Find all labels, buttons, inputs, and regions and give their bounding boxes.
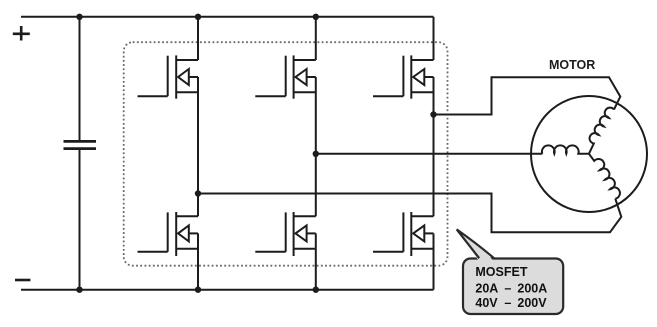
wire: DC bus capacitor branch, upper — [79, 17, 81, 141]
wire: leg C mid run (Q3 source to node C to Q6 drain) — [433, 77, 435, 216]
junction: negative rail / capacitor branch — [76, 287, 82, 293]
svg-text:MOSFET: MOSFET — [475, 265, 527, 279]
label: - terminal — [15, 279, 30, 282]
svg-text:20A–200A: 20A–200A — [475, 281, 547, 295]
wire: phase A output (node A to motor winding, lower route) — [198, 194, 621, 233]
wire: leg A mid run (Q1 source to node A to Q4 drain) — [197, 77, 199, 216]
wire: leg C lower run (Q6 body/source to negative rail) — [433, 233, 435, 289]
motor M1: phase A winding (lower right, wye) — [589, 154, 620, 199]
junction: positive rail / leg B — [313, 14, 319, 20]
junction: positive rail / capacitor branch — [76, 14, 82, 20]
motor M1: stator circle — [531, 96, 647, 212]
wire: leg A drain link (positive rail to Q1) — [197, 17, 199, 60]
wire: leg A lower run (Q4 body/source to negative rail) — [197, 233, 199, 289]
wire: phase B output (node B to motor winding, middle route) — [316, 153, 543, 155]
transistor Q5 (low-side phase B, N-channel MOSFET) — [255, 212, 315, 256]
wire: phase C output (node C to motor winding, upper route) — [434, 77, 621, 114]
node B: phase B half-bridge midpoint — [313, 151, 319, 157]
dashed outline: MOSFET bridge module — [124, 42, 448, 266]
transistor Q6 (low-side phase C, N-channel MOSFET) — [373, 212, 434, 256]
junction: positive rail / leg A — [195, 14, 201, 20]
wire: leg B lower run (Q5 body/source to negative rail) — [315, 233, 317, 289]
node C: phase C half-bridge midpoint — [430, 111, 436, 117]
junction: negative rail / leg B — [313, 287, 319, 293]
wire: positive DC rail (top) — [21, 16, 434, 18]
motor M1: phase C winding (upper right, wye) — [589, 108, 614, 154]
motor M1: phase B winding (left, wye) — [542, 145, 589, 153]
wire: leg B mid run (Q2 source to node B to Q5 drain) — [315, 77, 317, 216]
svg-text:40V–200V: 40V–200V — [475, 296, 547, 310]
svg-text:MOTOR: MOTOR — [549, 58, 595, 72]
capacitor C1 (DC link) — [64, 141, 97, 148]
wire: DC bus capacitor branch, lower — [79, 149, 81, 290]
callout: MOSFET rating box — [457, 229, 564, 314]
transistor Q4 (low-side phase A, N-channel MOSFET) — [138, 212, 199, 256]
transistor Q2 (high-side phase B, N-channel MOSFET) — [255, 55, 315, 98]
wire: negative DC rail (bottom) — [21, 289, 434, 291]
transistor Q3 (high-side phase C, N-channel MOSFET) — [373, 55, 434, 98]
label: + terminal — [13, 26, 30, 41]
transistor Q1 (high-side phase A, N-channel MOSFET) — [138, 55, 199, 98]
node A: phase A half-bridge midpoint — [195, 190, 201, 196]
junction: negative rail / leg A — [195, 287, 201, 293]
wire: leg C drain link (positive rail to Q3) — [433, 17, 435, 60]
wire: leg B drain link (positive rail to Q2) — [315, 17, 317, 60]
